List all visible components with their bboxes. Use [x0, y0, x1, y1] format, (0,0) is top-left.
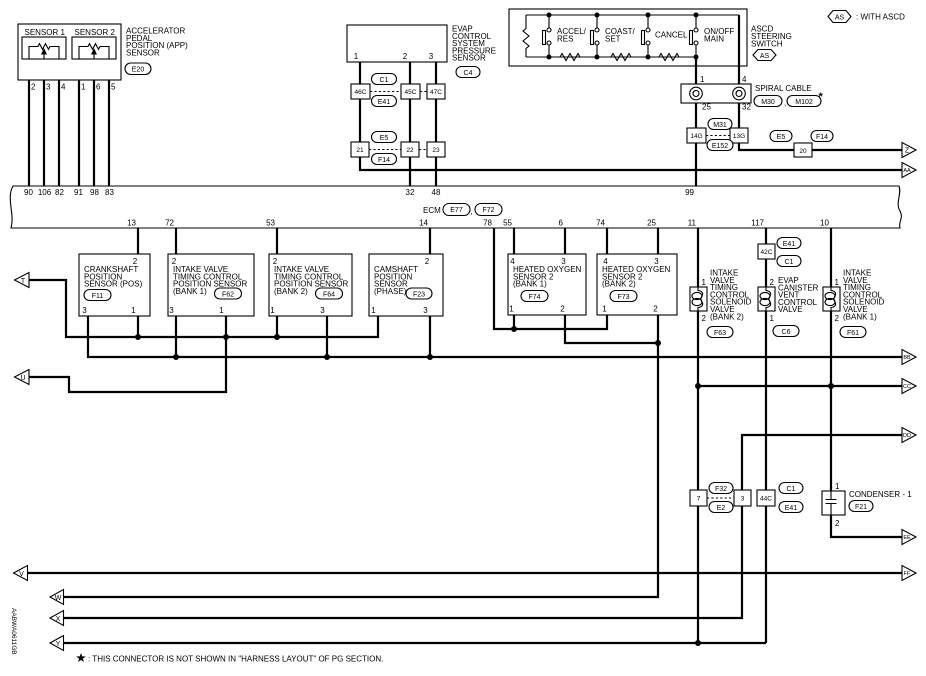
svg-text:RES: RES	[557, 34, 573, 43]
svg-text:C4: C4	[464, 70, 473, 77]
dashed connector link 46C-45C-47C	[370, 74, 427, 107]
svg-text:VALVE: VALVE	[778, 305, 803, 314]
footnote	[76, 653, 383, 664]
wire net T supply to position sensors pin 1	[29, 280, 378, 340]
svg-text:(PHASE): (PHASE)	[374, 287, 407, 296]
off-page arrow EE	[902, 530, 916, 545]
svg-text:BB: BB	[903, 355, 911, 361]
svg-text:SENSOR 2: SENSOR 2	[75, 28, 116, 37]
svg-text:4: 4	[510, 257, 515, 266]
wire net CC from terminal 11 branch to off-page arrow CC	[698, 383, 902, 389]
connector 22	[401, 142, 419, 157]
switch ON/OFF MAIN	[690, 15, 735, 57]
svg-text:CANCEL: CANCEL	[655, 31, 688, 40]
svg-text:74: 74	[596, 219, 605, 228]
svg-text:117: 117	[751, 219, 764, 228]
svg-text:32: 32	[406, 188, 415, 197]
svg-text:F72: F72	[482, 207, 494, 214]
svg-text:X: X	[56, 616, 61, 623]
joint connector 20	[794, 143, 812, 157]
svg-text:78: 78	[483, 219, 492, 228]
wire ECM terminal 11 through intake VTC solenoid bank2 and connector E2 to net Y	[688, 219, 701, 647]
svg-text:3: 3	[429, 52, 434, 61]
off-page arrow W	[50, 590, 64, 605]
svg-text:E152: E152	[712, 143, 728, 150]
svg-text:99: 99	[685, 188, 694, 197]
svg-text:1: 1	[219, 306, 224, 315]
potentiometer sensor 2	[79, 44, 109, 59]
svg-text:E5: E5	[380, 135, 389, 142]
svg-text:3: 3	[654, 257, 659, 266]
svg-text:3: 3	[169, 306, 174, 315]
EVAP control system pressure sensor C4	[347, 25, 496, 78]
dashed connector link 14G-13G	[706, 119, 733, 151]
connector 21 E5/F14	[351, 142, 369, 157]
svg-text:13: 13	[127, 219, 136, 228]
svg-text:E5: E5	[777, 134, 786, 141]
svg-text:C1: C1	[380, 77, 389, 84]
intake valve timing control position sensor bank2 F64	[269, 254, 352, 316]
svg-text:2: 2	[172, 257, 177, 266]
svg-text:2: 2	[835, 519, 840, 528]
svg-text:45C: 45C	[405, 89, 417, 96]
svg-text:91: 91	[74, 188, 83, 197]
wire condenser pin 2 to off-page arrow EE	[831, 515, 902, 537]
svg-text:E41: E41	[378, 99, 391, 106]
svg-text:F11: F11	[92, 293, 104, 300]
svg-text:SENSOR: SENSOR	[452, 54, 486, 63]
spiral cable M30/M102	[681, 84, 824, 108]
top rail wire in ASCD switch	[526, 13, 739, 18]
wire net U to intake VTC sensor bank1 pin 1	[29, 316, 229, 392]
svg-text:AABWA0611GB: AABWA0611GB	[10, 608, 17, 655]
svg-text:1: 1	[835, 482, 840, 491]
svg-text:4: 4	[603, 257, 608, 266]
switch ACCEL/RES	[543, 15, 587, 57]
svg-text:SENSOR (POS): SENSOR (POS)	[84, 280, 143, 289]
svg-text:98: 98	[90, 188, 99, 197]
switch COAST/SET	[591, 15, 636, 57]
off-page arrow T	[15, 273, 30, 288]
wire net BB sensor ground bus pins 3	[88, 316, 902, 360]
svg-text:F61: F61	[847, 330, 859, 337]
intake valve timing control solenoid valve bank1 F61	[823, 269, 885, 338]
wire EVAP sensor pin 1 to off-page arrow AA	[354, 53, 902, 171]
svg-text:4: 4	[742, 75, 747, 84]
connector 46C C1/E41	[351, 84, 370, 99]
svg-text:2: 2	[425, 257, 430, 266]
wire EVAP sensor pin 3 to ECM terminal 48	[429, 53, 441, 198]
connector 13G	[730, 128, 748, 143]
wire spiral cable pin 4 from ASCD top rail	[739, 15, 747, 84]
svg-text:1: 1	[702, 278, 707, 287]
svg-text:F73: F73	[617, 294, 629, 301]
svg-text:E41: E41	[785, 505, 798, 512]
svg-text:F14: F14	[816, 134, 828, 141]
svg-text:F23: F23	[413, 291, 425, 298]
svg-text:6: 6	[96, 83, 101, 92]
svg-text:M30: M30	[761, 99, 775, 106]
svg-text:(BANK 2): (BANK 2)	[710, 312, 744, 321]
off-page arrow DD	[902, 428, 916, 443]
svg-text:90: 90	[24, 188, 33, 197]
resistor between ACCEL/RES and COAST/SET	[560, 54, 580, 61]
svg-text:(BANK 2): (BANK 2)	[274, 287, 308, 296]
svg-text:2: 2	[273, 257, 278, 266]
svg-text:42C: 42C	[761, 249, 773, 256]
svg-text:SWITCH: SWITCH	[751, 40, 783, 49]
off-page arrow BB	[902, 350, 916, 365]
dashed connector link 7-3	[707, 483, 734, 513]
wire ECM terminal 117 through 42C and EVAP canister vent control valve to net Y	[751, 219, 766, 644]
svg-text:SET: SET	[605, 34, 621, 43]
svg-text:21: 21	[356, 147, 364, 154]
svg-text:72: 72	[165, 219, 174, 228]
svg-text:CC: CC	[903, 384, 911, 390]
harness ovals E5 F14 on arrow Z wire	[770, 131, 833, 142]
svg-text:EE: EE	[903, 535, 911, 541]
heated oxygen sensor 2 bank2 F73	[597, 254, 677, 315]
svg-text:F63: F63	[714, 330, 726, 337]
svg-text:23: 23	[432, 147, 440, 154]
heated oxygen sensor 2 bank1 F74	[508, 254, 586, 315]
svg-text:14G: 14G	[690, 133, 702, 140]
svg-text:F62: F62	[222, 291, 234, 298]
svg-text:11: 11	[688, 219, 697, 228]
wire ECM terminal 14 to camshaft sensor pin 2	[419, 219, 430, 255]
svg-text:5: 5	[111, 83, 116, 92]
switch CANCEL	[642, 15, 689, 57]
svg-text:SENSOR 1: SENSOR 1	[25, 28, 66, 37]
accelerator pedal position (APP) sensor E20	[18, 24, 188, 80]
resistor between COAST/SET and CANCEL	[611, 54, 631, 61]
wire ECM terminal 53 to intake VTC sensor bank2 pin 2	[266, 219, 277, 255]
off-page arrow AA	[902, 163, 916, 178]
svg-text:1: 1	[835, 278, 840, 287]
svg-text:E77: E77	[450, 207, 463, 214]
svg-text:1: 1	[270, 306, 275, 315]
svg-text:E2: E2	[717, 505, 726, 512]
svg-text:53: 53	[266, 219, 275, 228]
svg-text:E41: E41	[783, 241, 796, 248]
svg-text:82: 82	[55, 188, 64, 197]
dashed connector link 21-22-23	[369, 132, 427, 165]
wire APP sensor pin 2 to ECM terminal 90	[24, 59, 36, 197]
svg-text:2: 2	[770, 278, 775, 287]
wire EVAP sensor pin 2 to ECM terminal 32	[403, 53, 415, 198]
connector 7 F32/E2	[690, 490, 707, 506]
svg-text:M102: M102	[795, 99, 813, 106]
connector 42C E41/C1	[758, 238, 801, 267]
off-page arrow CC	[902, 379, 916, 394]
svg-text:1: 1	[131, 306, 136, 315]
svg-text:,: ,	[784, 99, 786, 108]
svg-text:2: 2	[835, 314, 840, 323]
connector 3	[734, 490, 751, 506]
svg-text:2: 2	[653, 305, 658, 314]
svg-text:3: 3	[741, 496, 745, 503]
wire net Y to off-page arrow Y	[64, 642, 767, 644]
off-page arrow Y	[50, 636, 64, 651]
svg-text:F74: F74	[528, 294, 540, 301]
svg-text:F21: F21	[855, 504, 867, 511]
wire net X through connector E2 to off-page arrow DD	[64, 435, 903, 618]
diagram id	[10, 608, 17, 655]
svg-text:*: *	[819, 91, 824, 103]
connector 44C C1/E41	[757, 483, 803, 513]
intake valve timing control position sensor bank1 F62	[168, 254, 254, 316]
wire ECM terminal 74 to heated oxygen sensor bank2 pin 4	[596, 219, 607, 255]
svg-text:3: 3	[82, 306, 87, 315]
svg-text:SENSOR: SENSOR	[126, 48, 160, 57]
wire ECM terminal 13 to crankshaft sensor pin 2	[127, 219, 138, 255]
svg-text:32: 32	[742, 103, 751, 112]
EVAP canister vent control valve C6	[758, 276, 819, 337]
connector 14G M31/E152	[687, 128, 706, 143]
svg-text:DD: DD	[903, 433, 911, 439]
wire APP sensor pin 1 to ECM terminal 91	[74, 59, 86, 197]
svg-text:: THIS CONNECTOR IS NOT SHOWN: : THIS CONNECTOR IS NOT SHOWN IN "HARNES…	[88, 655, 383, 664]
svg-text:(BANK 1): (BANK 1)	[173, 287, 207, 296]
off-page arrow V	[14, 566, 28, 581]
intake valve timing control solenoid valve bank2 F63	[690, 269, 752, 338]
legend AS WITH ASCD	[828, 11, 905, 23]
off-page arrow Z	[902, 143, 916, 158]
svg-text:6: 6	[559, 219, 564, 228]
svg-text:1: 1	[770, 314, 775, 323]
svg-text:20: 20	[799, 148, 807, 155]
svg-text:F32: F32	[715, 486, 727, 493]
svg-text:(BANK 2): (BANK 2)	[602, 280, 636, 289]
connector 45C	[401, 84, 420, 99]
svg-text:10: 10	[820, 219, 829, 228]
svg-text:W: W	[55, 595, 62, 602]
svg-text:2: 2	[133, 257, 138, 266]
svg-text:SPIRAL CABLE: SPIRAL CABLE	[755, 84, 812, 93]
svg-text:3: 3	[320, 306, 325, 315]
svg-text:C6: C6	[782, 329, 791, 336]
crankshaft position sensor (POS) F11	[79, 254, 150, 316]
svg-text:25: 25	[702, 103, 711, 112]
svg-text:1: 1	[371, 306, 376, 315]
svg-text:CONDENSER - 1: CONDENSER - 1	[849, 490, 912, 499]
svg-text:7: 7	[697, 496, 701, 503]
wire spiral cable terminal 32 through 13G and joint 20 to off-page arrow Z	[739, 103, 902, 151]
ASCD steering switch AS box	[509, 9, 792, 66]
svg-text:22: 22	[406, 147, 414, 154]
svg-text:2: 2	[702, 314, 707, 323]
svg-text:: WITH ASCD: : WITH ASCD	[856, 13, 905, 22]
svg-text:C1: C1	[785, 259, 794, 266]
svg-text:V: V	[19, 571, 24, 578]
svg-text:(BANK 1): (BANK 1)	[843, 312, 877, 321]
svg-text:2: 2	[560, 305, 565, 314]
svg-text:Y: Y	[56, 641, 61, 648]
svg-text:44C: 44C	[760, 496, 772, 503]
svg-text:46C: 46C	[355, 89, 367, 96]
svg-text:Z: Z	[905, 148, 910, 155]
wire ECM terminal 55 to heated oxygen sensor bank1 pin 4	[503, 219, 514, 255]
svg-text:1: 1	[602, 305, 607, 314]
bottom rail wire in ASCD switch	[526, 55, 699, 60]
ECM module body E77/F72 band	[10, 186, 901, 228]
wire net W heated oxygen sensors ground to off-page arrow W	[64, 315, 659, 597]
connector 47C	[427, 84, 445, 99]
wire ECM terminal 6 to heated oxygen sensor bank1 pin 3	[559, 219, 565, 255]
svg-text:1: 1	[509, 305, 514, 314]
wire APP sensor pin 6 to ECM terminal 98	[90, 59, 101, 197]
off-page arrow FF	[902, 566, 916, 581]
svg-text:,: ,	[471, 207, 473, 216]
svg-text:MAIN: MAIN	[704, 34, 724, 43]
off-page arrow X	[50, 611, 64, 626]
svg-text:1: 1	[354, 52, 359, 61]
svg-text:3: 3	[46, 83, 51, 92]
svg-text:AS: AS	[760, 53, 770, 60]
connector 23	[427, 142, 445, 157]
wire ECM terminal 72 to intake VTC sensor bank1 pin 2	[165, 219, 176, 255]
svg-text:F14: F14	[378, 157, 390, 164]
svg-text:M31: M31	[713, 122, 727, 129]
off-page arrow U	[15, 370, 30, 385]
camshaft position sensor (PHASE) F23	[369, 254, 443, 316]
svg-text:T: T	[21, 278, 26, 285]
svg-text:25: 25	[647, 219, 656, 228]
svg-text:F64: F64	[323, 291, 335, 298]
svg-text:47C: 47C	[430, 89, 442, 96]
svg-text:3: 3	[423, 306, 428, 315]
svg-text:AS: AS	[835, 14, 845, 21]
svg-text:1: 1	[700, 75, 705, 84]
potentiometer sensor 1	[29, 44, 59, 59]
wire APP sensor pin 3 to ECM terminal 106	[38, 59, 52, 197]
resistor between CANCEL and ON/OFF MAIN	[659, 54, 679, 61]
svg-text:2: 2	[403, 52, 408, 61]
svg-text:106: 106	[38, 188, 52, 197]
wire ECM terminal 25 to heated oxygen sensor bank2 pin 3	[647, 219, 658, 255]
svg-text:55: 55	[503, 219, 512, 228]
wire heated oxygen sensor bank1 pin 2 to bank2 pin 2	[565, 315, 661, 346]
svg-text:FF: FF	[904, 571, 911, 577]
wire APP sensor pin 5 to ECM terminal 83	[105, 59, 116, 197]
svg-text:3: 3	[561, 257, 566, 266]
wire APP sensor pin 4 to ECM terminal 82	[55, 59, 66, 197]
wire ECM terminal 78 to heated oxygen sensors pin 1	[483, 219, 607, 333]
svg-text:1: 1	[81, 83, 86, 92]
svg-text:14: 14	[419, 219, 428, 228]
wire ECM terminal 10 through intake VTC solenoid bank1 to condenser pin 1	[820, 219, 831, 492]
svg-text:ECM: ECM	[423, 206, 441, 215]
svg-text:U: U	[20, 375, 25, 382]
condenser-1 F21	[822, 482, 912, 528]
resistor left leg of ASCD switch	[523, 15, 529, 57]
svg-text:C1: C1	[787, 486, 796, 493]
svg-text:48: 48	[432, 188, 441, 197]
wire net V across page to off-page arrow FF	[28, 572, 903, 574]
svg-text:2: 2	[31, 83, 36, 92]
svg-text:E20: E20	[132, 67, 145, 74]
svg-text:AA: AA	[903, 168, 911, 174]
svg-text:(BANK 1): (BANK 1)	[513, 280, 547, 289]
wire spiral cable pin 1 terminal 25 through 14G to ECM terminal 99	[685, 57, 711, 197]
svg-text:4: 4	[61, 83, 66, 92]
svg-text:13G: 13G	[733, 133, 745, 140]
svg-text:83: 83	[105, 188, 114, 197]
